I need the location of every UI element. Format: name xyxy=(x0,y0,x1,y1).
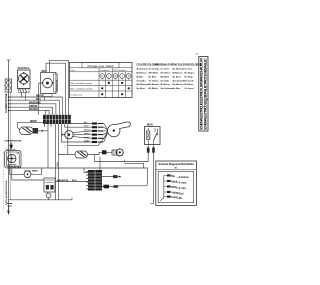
valve leads xyxy=(22,92,26,100)
compressor M4 xyxy=(5,151,22,169)
blower connector X2 xyxy=(84,122,107,146)
mains plug P1 xyxy=(4,79,12,92)
svg-text:Bi Bianco: Bi Bianco xyxy=(137,73,148,75)
svg-text:BLU: BLU xyxy=(36,99,41,101)
svg-text:—PE: —PE xyxy=(177,198,183,200)
svg-text:Bk Black: Bk Black xyxy=(149,88,159,90)
svg-text:Ma Marron: Ma Marron xyxy=(173,84,185,86)
svg-text:Bl Blanco: Bl Blanco xyxy=(173,73,184,75)
valve lead drop xyxy=(46,111,49,115)
svg-text:—Gnd: —Gnd xyxy=(177,194,184,196)
svg-text:Or Orange: Or Orange xyxy=(149,69,161,71)
svg-text:BIANCO: BIANCO xyxy=(29,108,38,111)
C2 feed wire xyxy=(59,154,76,156)
svg-text:Ar Arancio: Ar Arancio xyxy=(137,68,149,71)
wire pair from supply to components xyxy=(9,97,63,115)
svg-text:Bi Blanc: Bi Blanc xyxy=(185,84,195,86)
run capacitor C1 xyxy=(20,127,43,135)
svg-text:Bla Blau: Bla Blau xyxy=(161,76,170,78)
blower speed legend box xyxy=(156,161,197,206)
svg-text:COMPRESSORE: COMPRESSORE xyxy=(4,141,22,143)
T1 wires xyxy=(10,168,42,174)
svg-text:—Common: —Common xyxy=(177,177,190,179)
svg-text:Blu: Blu xyxy=(171,176,175,178)
svg-text:NERO: NERO xyxy=(32,171,38,173)
svg-text:Gi Giallo: Gi Giallo xyxy=(137,80,147,82)
motor capacitor C2 xyxy=(75,151,88,158)
svg-text:Wh White: Wh White xyxy=(149,72,160,75)
pump motor M1 xyxy=(41,73,58,97)
damper motor M3 xyxy=(112,148,124,157)
svg-text:Ge Geel: Ge Geel xyxy=(161,69,170,71)
svg-text:Az Azul: Az Azul xyxy=(173,75,181,78)
supply terminal block X3 xyxy=(86,170,102,191)
svg-text:Br Braun: Br Braun xyxy=(161,84,171,86)
condenser fan motor M2 xyxy=(62,131,73,139)
bottom supply terminal xyxy=(7,204,13,215)
relay K1 xyxy=(145,127,161,145)
svg-text:Gr Gris: Gr Gris xyxy=(185,69,193,71)
junction dots on supply xyxy=(8,96,10,111)
svg-text:Gb Gelb: Gb Gelb xyxy=(161,80,170,82)
compressor leads xyxy=(10,167,15,180)
svg-text:MARRONE: MARRONE xyxy=(57,179,69,182)
svg-text:BTO ventilaz.: BTO ventilaz. xyxy=(113,69,126,72)
svg-text:Utol: Utol xyxy=(71,69,75,72)
svg-text:Ne Nero: Ne Nero xyxy=(137,88,146,90)
svg-text:Change over switch: Change over switch xyxy=(87,64,114,68)
compressor feed arrow xyxy=(10,143,13,149)
svg-text:Gi Jaune: Gi Jaune xyxy=(185,88,195,90)
M2 output wires to connector xyxy=(73,131,92,138)
svg-text:MARRONE: MARRONE xyxy=(29,101,41,104)
solenoid valve Y1 xyxy=(18,70,31,92)
svg-text:Ve Verde: Ve Verde xyxy=(185,80,195,82)
S1 feed wire xyxy=(12,179,44,181)
branch wire 2 with label xyxy=(9,107,53,115)
evaporator blower B1 xyxy=(108,122,131,137)
svg-text:Max. ventilation speed: Max. ventilation speed xyxy=(71,88,94,91)
svg-text:rosso: rosso xyxy=(84,133,90,135)
panel dashed border xyxy=(2,152,4,210)
supply wire companion xyxy=(9,92,11,200)
svg-text:MARRONE: MARRONE xyxy=(55,79,58,91)
relay pin sleeves xyxy=(147,148,155,153)
overload protector S1 xyxy=(44,178,55,200)
bottom rail wire xyxy=(9,198,72,200)
svg-text:NERO: NERO xyxy=(30,121,37,123)
relay left pin wire xyxy=(147,145,149,162)
svg-text:BLU: BLU xyxy=(17,166,22,168)
svg-text:giallo: giallo xyxy=(84,141,90,143)
svg-text:—V. max.: —V. max. xyxy=(177,183,187,185)
svg-text:MAX.: MAX. xyxy=(147,123,154,127)
svg-text:Ro Rojo: Ro Rojo xyxy=(185,76,194,78)
svg-text:grigio: grigio xyxy=(84,137,90,139)
relay right pin wire xyxy=(150,145,153,204)
svg-text:GRIGIO: GRIGIO xyxy=(29,106,38,108)
svg-text:Compressor: Compressor xyxy=(71,94,83,97)
gear chain sleeve xyxy=(102,150,107,154)
svg-text:CAVO ALIMENTAZIONE: CAVO ALIMENTAZIONE xyxy=(5,180,8,205)
S1 output wire with labels xyxy=(55,181,88,183)
terminal strip X1 xyxy=(43,115,71,124)
svg-text:Ws Weiss: Ws Weiss xyxy=(161,73,172,75)
M1 loop wires xyxy=(39,61,69,115)
svg-text:SCHEMA ELETTRICO ESQUEMA ELECT: SCHEMA ELETTRICO ESQUEMA ELECTRICO SCHEM… xyxy=(204,58,208,130)
C1 feed wire with label xyxy=(18,123,47,130)
branch wire 1 with label xyxy=(9,104,56,115)
gear chain wire xyxy=(88,152,113,161)
svg-text:FARBEN/KLEUREN/COULEURS/COLORE: FARBEN/KLEUREN/COULEURS/COLORES xyxy=(155,63,202,66)
svg-text:BLU: BLU xyxy=(72,180,77,182)
svg-text:bianco: bianco xyxy=(84,129,91,131)
wire colour legend xyxy=(137,63,202,90)
svg-text:Bn Brown: Bn Brown xyxy=(149,84,160,86)
X3 to relay wire with sleeve xyxy=(102,185,147,189)
svg-text:Bl Blu: Bl Blu xyxy=(137,76,144,78)
svg-text:Be Blue: Be Blue xyxy=(149,76,158,78)
line L1 xyxy=(95,160,149,168)
X3 stub terminal xyxy=(102,175,121,178)
change-over switch table xyxy=(70,63,133,98)
long bundle line L2 xyxy=(14,168,147,185)
svg-text:Ye Yellow: Ye Yellow xyxy=(149,80,159,82)
svg-text:Na Naranja: Na Naranja xyxy=(173,69,185,71)
branch wire 3 with label xyxy=(9,111,50,115)
svg-text:Ne Negro: Ne Negro xyxy=(185,73,195,75)
X3 feed stubs xyxy=(84,157,100,173)
svg-text:BLU: BLU xyxy=(57,162,59,167)
svg-text:Combinaz.: Combinaz. xyxy=(100,70,111,72)
svg-text:—V. min.: —V. min. xyxy=(177,188,187,190)
svg-text:II: II xyxy=(128,74,130,78)
svg-text:NERO: NERO xyxy=(36,96,43,98)
svg-text:Min. ventilation speed: Min. ventilation speed xyxy=(71,82,93,85)
svg-text:ALIMENTAZIONE: ALIMENTAZIONE xyxy=(5,93,8,113)
C1 output wire xyxy=(43,130,48,132)
svg-text:el.: el. xyxy=(175,167,178,170)
svg-text:VALVOLA: VALVOLA xyxy=(18,66,30,70)
strip exit wires xyxy=(45,123,98,200)
mains supply wire xyxy=(8,60,10,212)
supply top tick xyxy=(7,59,11,61)
klixon thermostat T1 xyxy=(24,171,31,178)
right margin title block xyxy=(196,54,209,131)
svg-text:Ne Noir: Ne Noir xyxy=(173,88,181,90)
